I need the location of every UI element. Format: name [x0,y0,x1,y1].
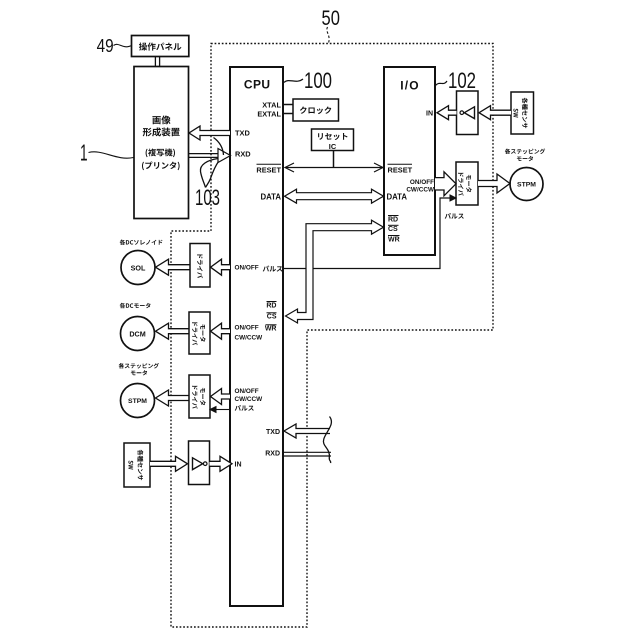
pulse pin label STPM [235,405,254,411]
leader line to 100 [284,79,303,83]
arrow CPU to STPM driver [211,389,231,405]
STPM circle right [510,168,543,201]
clock box [293,99,339,121]
RD CS WR bus arrow [286,220,384,323]
svg-text:100: 100 [304,68,332,93]
stepping driver label left [200,388,206,405]
leader line to 50 [327,27,329,43]
stepping motor label right [505,149,545,155]
stepping driver box left [189,375,210,418]
arrow IO to stepping driver [435,172,456,196]
arrow TXD to device [189,126,230,140]
pulse pin label CPU right [263,266,283,272]
RXD wire bottom [284,451,332,453]
operation panel box 49 [132,36,189,57]
CPU box 100 [230,67,283,606]
svg-text:WR: WR [388,236,400,243]
buffer triangle right [464,107,474,119]
motor driver box DCM [189,312,210,354]
stepping driver right label [466,175,472,192]
svg-text:103: 103 [195,185,220,210]
svg-text:WR: WR [265,326,277,333]
svg-text:CPU: CPU [244,77,271,91]
sensor box right label [522,98,528,129]
svg-text:ON/OFF: ON/OFF [410,179,434,186]
arrow buffer to IO IN [437,106,457,120]
leader line to 102 [436,81,448,86]
svg-text:CS: CS [267,314,277,321]
svg-text:TXD: TXD [266,429,280,436]
pulse label right [445,213,464,219]
svg-text:IN: IN [426,111,433,118]
svg-text:RXD: RXD [235,150,251,159]
svg-text:ON/OFF: ON/OFF [235,325,259,332]
svg-text:DCM: DCM [129,329,145,338]
solenoid label [120,239,163,245]
stepping motor label left [119,363,159,369]
svg-text:1: 1 [80,140,88,166]
solenoid driver label [197,254,203,278]
svg-text:SOL: SOL [131,263,146,272]
buffer box right [457,91,479,135]
pulse wire to left driver [214,409,230,411]
svg-text:RD: RD [388,216,398,223]
buffer box left [189,441,210,485]
arrow CPU to SOL driver [211,259,231,275]
arrow TXD bottom [284,424,330,438]
svg-text:49: 49 [97,36,114,56]
RXD wire and arrow into CPU [189,153,218,155]
DATA bus arrow [285,189,384,203]
XTAL stub [284,104,294,106]
arrow CPU to DCM driver [211,323,231,339]
buffer triangle left [193,458,203,470]
solenoid driver box [190,244,210,288]
svg-text:50: 50 [322,6,340,30]
svg-text:EXTAL: EXTAL [257,110,281,119]
svg-text:STPM: STPM [517,182,536,189]
svg-text:RD: RD [266,302,276,309]
RESET wire [286,167,382,169]
arrow driver to STPM right [478,174,510,193]
reset IC box [312,129,354,151]
svg-text:TXD: TXD [235,129,250,138]
stepping driver box right [456,162,478,205]
arrow driver to STPM left [156,390,190,406]
DC motor label [120,303,151,309]
svg-text:102: 102 [448,68,476,93]
sensor box right [511,92,534,134]
STPM circle left [121,384,155,418]
SOL circle [121,251,155,285]
leader line to 1 [89,152,134,158]
pulse wire to right driver [284,198,452,269]
reset IC stem [333,151,335,168]
svg-text:ON/OFF: ON/OFF [235,265,259,272]
svg-text:CW/CCW: CW/CCW [235,335,264,342]
dashed boundary of control unit 50 [171,44,493,628]
svg-text:STPM: STPM [128,398,147,405]
image forming device box 1 [134,67,189,219]
leader lines 103 [214,138,224,156]
clock label [300,107,331,115]
svg-text:DATA: DATA [261,193,282,202]
operation panel label [139,43,182,51]
motor driver label DCM [200,324,206,341]
cable break mark [323,417,331,464]
EXTAL stub [284,113,294,115]
svg-text:IN: IN [235,462,242,469]
svg-text:XTAL: XTAL [262,100,281,109]
svg-text:IC: IC [329,142,337,151]
svg-text:I/O: I/O [400,78,420,92]
svg-text:RXD: RXD [265,451,280,458]
DCM circle [121,317,155,351]
svg-text:CW/CCW: CW/CCW [406,186,435,193]
arrow sensor to left buffer [150,456,188,471]
device text [152,116,170,125]
arrow sensor to buffer [479,106,511,120]
svg-text:ON/OFF: ON/OFF [235,388,259,395]
arrow driver to SOL [156,259,191,275]
connector panel to device [154,57,156,68]
svg-text:RESET: RESET [256,166,281,175]
sensor box left [124,443,150,487]
svg-text:RESET: RESET [388,166,413,175]
svg-text:DATA: DATA [387,193,408,202]
svg-text:CW/CCW: CW/CCW [235,396,264,403]
arrow driver to DCM [156,323,190,339]
IO box 102 [384,67,435,255]
leader line to 49 [114,44,132,46]
svg-text:CS: CS [388,226,398,233]
reset IC label [318,133,347,140]
arrow buffer to CPU IN [210,456,233,471]
sensor box left label [137,450,143,481]
